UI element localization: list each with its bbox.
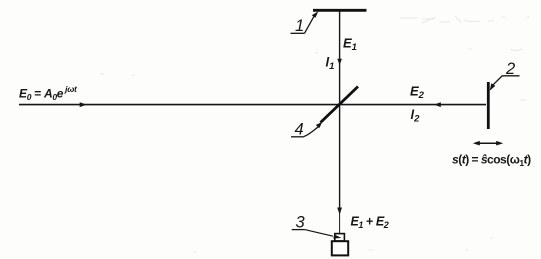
svg-text:E0 = A0e jωt: E0 = A0e jωt [19, 84, 78, 102]
wire: vertical beam mirror1 to detector [339, 10, 341, 213]
label 3 underline [292, 229, 305, 231]
arrow: downward beam E1 (upper) [337, 59, 342, 66]
svg-text:E2: E2 [410, 84, 425, 102]
svg-text:l2: l2 [411, 107, 421, 125]
label 3 leader arrow [305, 230, 333, 237]
mirror 2 motion double arrow [477, 142, 499, 144]
label 1 leader arrow [305, 15, 315, 33]
label 2 underline [503, 75, 520, 77]
detector 3: body box [332, 241, 348, 255]
svg-text:1: 1 [295, 17, 304, 35]
wire: input beam E0 (horizontal, left segment into beam splitter) [19, 104, 340, 106]
svg-text:E1: E1 [343, 36, 357, 54]
mirror 1 (top, horizontal) [313, 9, 367, 12]
svg-text:2: 2 [505, 60, 515, 78]
arrow: downward beam into detector [337, 208, 342, 215]
arrow: input beam direction (rightward) [80, 102, 87, 107]
svg-text:s(t) = ŝcos(ω1t): s(t) = ŝcos(ω1t) [452, 153, 531, 169]
svg-text:4: 4 [295, 121, 304, 139]
label 2 leader arrow [493, 76, 503, 86]
svg-text:E1 + E2: E1 + E2 [351, 215, 389, 231]
detector 3: aperture box [335, 234, 345, 241]
wire: thin continuation to detector aperture [339, 210, 341, 233]
arrow: E2 return beam (leftward) [434, 102, 441, 107]
svg-text:3: 3 [296, 214, 306, 232]
label 4 leader arrow [304, 127, 318, 137]
label 4 underline [291, 136, 304, 138]
svg-text:l1: l1 [326, 55, 335, 73]
mirror 2 (right, vertical) [487, 82, 490, 129]
wire: beam segment splitter to mirror 2 [340, 104, 486, 106]
beam splitter 4 (diagonal) [321, 87, 359, 123]
label 1 underline [291, 32, 305, 34]
